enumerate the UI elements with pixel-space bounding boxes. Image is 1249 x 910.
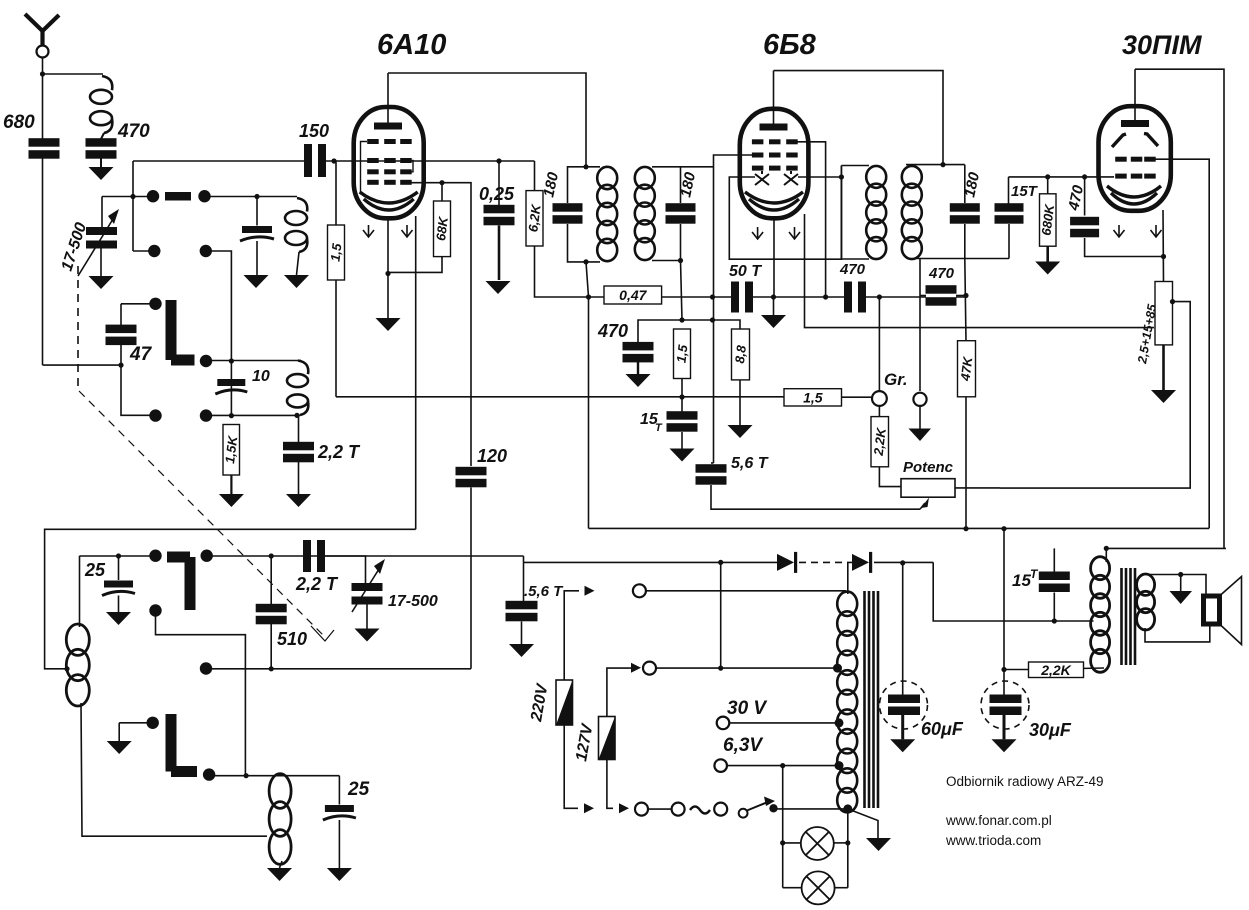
wire 30uF gnd stem	[1003, 715, 1006, 739]
switch contact S1a	[147, 190, 159, 202]
node lamp1 left	[780, 840, 785, 845]
node jack1 bus	[877, 294, 882, 299]
node 510 bottom	[269, 666, 274, 671]
wire pot right	[955, 487, 1000, 489]
svg-text:120: 120	[477, 446, 507, 466]
resistor 6.2K	[525, 191, 543, 246]
svg-text:0,47: 0,47	[619, 287, 647, 303]
grid frame 6A10	[361, 142, 414, 194]
wire det cap stub2	[956, 295, 966, 297]
resistor 47K	[957, 341, 975, 397]
wire 6B8 heater line	[805, 214, 1155, 328]
dashed tuning link diagonal	[79, 391, 325, 637]
wire to 60uF	[902, 563, 904, 695]
wire 6A10 anode up	[387, 73, 389, 123]
node 30P1M cathode	[1161, 254, 1166, 259]
wire OT pri bottom	[1030, 668, 1104, 670]
fuse 127V	[599, 717, 616, 760]
ground 8.8	[728, 425, 753, 438]
ground trimmer 1	[244, 275, 269, 288]
lamp 2	[802, 871, 835, 904]
wire to 1.5M	[335, 161, 337, 225]
capacitor 470 AVC	[623, 342, 654, 363]
ground 6B8 cathode	[761, 315, 786, 328]
arrow var cap 2	[352, 559, 385, 612]
capacitor 470 a	[844, 282, 866, 313]
lamp 1	[801, 827, 834, 860]
trimmer capacitor 25a	[102, 581, 135, 596]
switch contact S2d	[200, 409, 212, 421]
anode 30P1M	[1121, 120, 1149, 127]
resistor 68K	[433, 201, 451, 257]
svg-text:10: 10	[252, 368, 270, 385]
wire 127V down	[607, 760, 613, 809]
wire 220V up	[564, 591, 579, 680]
wire L5 tail	[280, 861, 283, 868]
wire 68K bottom	[388, 257, 442, 273]
node 470 top	[1082, 174, 1087, 179]
wire 680K to ground	[1046, 246, 1049, 261]
wire 1.5K ground	[230, 475, 232, 494]
switch contact S1b	[198, 190, 210, 202]
arrow jack2 chassis	[909, 429, 932, 442]
svg-text:Odbiornik radiowy ARZ-49: Odbiornik radiowy ARZ-49	[946, 774, 1104, 789]
grids 30P1M	[1115, 157, 1156, 179]
wire 6.2K to 0.47	[535, 246, 605, 297]
beam plates 30P1M	[1112, 134, 1158, 148]
svg-text:0,25: 0,25	[479, 184, 515, 204]
tap 6.3V	[835, 761, 844, 770]
wire 6B8 g3/AVC down	[714, 155, 758, 463]
switch contact S3c	[200, 662, 212, 674]
terminal 127V	[643, 662, 656, 675]
svg-text:15: 15	[1012, 571, 1031, 590]
wire bus to 127row	[720, 562, 722, 668]
node 680K top	[1045, 174, 1050, 179]
wire 6A10 cathode down	[387, 218, 389, 318]
wire 470avc ground	[637, 362, 639, 374]
wire L2 to ground	[297, 252, 300, 275]
wire 30P1M g2 down	[1150, 159, 1209, 528]
wire 47K bottom	[965, 397, 967, 529]
arrow speaker chassis	[1170, 591, 1193, 604]
node antenna junction	[40, 71, 45, 76]
node diode out	[839, 174, 844, 179]
wire S1c left	[133, 250, 154, 252]
wire OT sec bottom	[1145, 624, 1210, 642]
wire avc to pot wiper	[711, 485, 920, 509]
node heater tap	[1170, 299, 1175, 304]
wire 5.6T psu gnd	[521, 622, 523, 645]
wire trimmer1 to ground	[256, 241, 258, 275]
oscillator coil L4	[66, 624, 89, 706]
node IFT1 sec bottom	[678, 258, 683, 263]
node IFT1 bottom	[583, 259, 588, 264]
IF transformer 1 primary circuit	[568, 167, 601, 262]
wire osc line left	[45, 529, 416, 669]
wire 6B8 g1 down	[792, 142, 826, 297]
wire to chassis arrow	[1180, 575, 1182, 592]
wire 2.2T ground	[298, 462, 300, 495]
wire 1.5M down	[335, 280, 337, 397]
node 510 top	[269, 553, 274, 558]
wire S3e down	[156, 611, 246, 776]
variable capacitor 17-500 #2	[352, 583, 383, 605]
oscillator coil L5	[269, 774, 291, 865]
terminal 6.3V	[714, 759, 727, 772]
node IFT2 pri top	[940, 162, 945, 167]
wire 2.2K to pot	[879, 467, 901, 487]
capacitor 150	[304, 144, 326, 177]
diodes inside 6B8	[755, 171, 798, 185]
node mains bus tap	[718, 560, 723, 565]
wire 510 top stem	[270, 556, 272, 605]
capacitor 180 IFT2	[950, 203, 980, 224]
input coil L1	[90, 76, 112, 133]
wire 30V tap	[730, 722, 840, 724]
wire 15T to IFT2 rail	[1008, 224, 1010, 259]
jack Gr 1	[872, 391, 887, 406]
switch contact S3a	[149, 550, 161, 562]
node L3 bottom	[294, 413, 299, 418]
node 25a tap	[116, 553, 121, 558]
wire to 470 cath cap	[1084, 177, 1086, 216]
svg-text:6A10: 6A10	[377, 29, 446, 61]
wire to var cap 1	[101, 197, 103, 228]
svg-text:30ПIM: 30ПIM	[1122, 30, 1202, 60]
link end mark	[311, 626, 334, 641]
wire 25b ground	[338, 820, 340, 868]
wire coil to cap	[101, 133, 104, 139]
ground bias chain	[1151, 390, 1176, 403]
wire 1.5 bottom	[681, 379, 683, 412]
tap 30V	[835, 718, 844, 727]
wire 0.47 to bus	[662, 296, 713, 298]
svg-text:Potenc: Potenc	[903, 459, 954, 476]
wire row to psu	[366, 555, 524, 557]
wire var1 to ground	[100, 249, 102, 277]
wire 60uF gnd stem	[901, 715, 904, 739]
ground 30uF	[992, 739, 1017, 752]
svg-text:2,2 T: 2,2 T	[295, 574, 339, 594]
dashed tuning link vertical	[77, 266, 79, 390]
svg-text:68K: 68K	[433, 214, 451, 241]
wire IFT2 to 47K	[965, 259, 966, 342]
switch contact S1d	[200, 245, 212, 257]
node rail to 2.2K	[1001, 526, 1006, 531]
wire grid line left	[133, 160, 304, 162]
node avc line	[679, 394, 684, 399]
wire lamps left rail	[782, 766, 784, 888]
node IFT1 top	[583, 164, 588, 169]
wire lamp1 left stub	[783, 842, 801, 844]
wire row3 left	[80, 555, 154, 557]
svg-text:470: 470	[597, 321, 628, 341]
switch bar S3	[167, 557, 190, 610]
svg-text:47: 47	[129, 344, 153, 365]
wire down to band switch	[132, 161, 134, 251]
heater pin 30P1M left	[1114, 225, 1125, 237]
svg-text:60μF: 60μF	[921, 719, 964, 739]
wire 25a ground	[118, 596, 120, 613]
output transformer primary	[1091, 557, 1110, 673]
power transformer core	[865, 591, 879, 808]
oscillator coil L3	[287, 361, 308, 416]
IFT1 primary coil	[597, 167, 617, 261]
wire L4 to L5	[81, 703, 267, 836]
wire 510 bottom	[270, 624, 272, 669]
output transformer core	[1122, 568, 1136, 665]
potentiometer Potenc	[901, 479, 955, 498]
wire 15T out bottom	[1053, 593, 1055, 622]
output transformer secondary	[1137, 574, 1155, 630]
wire osc mid row	[206, 668, 471, 670]
resistor 1.5M	[327, 225, 344, 280]
wire 127V to transformer	[656, 667, 838, 669]
node lamps to 6.3V	[780, 763, 785, 768]
ground transformer	[866, 838, 891, 851]
capacitor 47	[106, 325, 137, 346]
wire S4a ground stem	[118, 723, 120, 741]
wire 470 to ground	[100, 158, 102, 167]
wire S2b right	[206, 360, 301, 362]
heater pin 6B8 left	[752, 227, 763, 239]
switch contact S1c	[148, 245, 160, 257]
node avc 1.5 top	[679, 317, 684, 322]
wire antenna down	[42, 58, 44, 140]
svg-text:www.trioda.com: www.trioda.com	[945, 833, 1041, 848]
wire 6B8 anode to IFT2	[774, 71, 944, 165]
capacitor 60uF	[880, 681, 928, 729]
svg-text:6Б8: 6Б8	[763, 29, 817, 61]
diode D2	[852, 552, 872, 573]
wire lamp1 right stub	[834, 842, 848, 844]
svg-text:15T: 15T	[1011, 183, 1039, 200]
node g3 bus	[710, 294, 715, 299]
wire 30P1M cathode down	[1162, 210, 1165, 282]
svg-text:6,3V: 6,3V	[723, 735, 763, 756]
wire L4 top	[79, 556, 81, 627]
node avc cross	[710, 317, 715, 322]
switch bar S2 L	[171, 300, 195, 360]
IFT2 primary coil	[902, 166, 922, 259]
jack Gr 2	[913, 393, 926, 406]
node 15T/B+	[1052, 618, 1057, 623]
wire 6B8 anode up	[773, 71, 775, 124]
terminal mains 3	[714, 803, 727, 816]
arrow plug 220	[585, 586, 595, 596]
capacitor 470 detector	[926, 285, 957, 306]
wire to var2	[325, 556, 366, 583]
wire 6A10 osc anode down	[415, 216, 417, 529]
diode D1	[777, 552, 797, 573]
node 0.25 tap	[496, 158, 501, 163]
wire lamp2 left stub	[783, 887, 801, 889]
capacitor 0.25	[484, 205, 515, 226]
svg-text:.5,6 T: .5,6 T	[524, 583, 564, 600]
wire avc top line	[638, 320, 713, 343]
wire 5.6T stub	[711, 462, 714, 464]
AC symbol	[690, 807, 710, 814]
svg-text:510: 510	[277, 629, 307, 649]
wire 127V up	[607, 668, 631, 716]
switch bar S1	[165, 192, 191, 201]
wire to 0.25	[498, 161, 500, 205]
node row4 cross	[244, 773, 249, 778]
variable capacitor 17-500 #1	[86, 227, 117, 249]
wire 220V down	[564, 725, 578, 808]
wire mains 1-2	[648, 808, 672, 810]
wire 2.2K left	[1004, 669, 1029, 671]
node cathode/68K	[385, 271, 390, 276]
cathode 6B8	[745, 192, 803, 210]
wire 30P1M anode up	[1134, 69, 1136, 120]
wire 0.25 to ground	[498, 226, 501, 281]
node trimmer tap	[254, 194, 259, 199]
capacitor 5.6T psu	[506, 601, 538, 622]
dashed diode link	[799, 561, 854, 563]
ground 25a	[106, 612, 131, 625]
terminal mains 1	[635, 803, 648, 816]
wire to 5.6T psu	[523, 562, 525, 601]
power transformer winding	[837, 592, 857, 813]
wire 30P1M anode right down	[1135, 69, 1224, 548]
capacitor 470 cathode	[1070, 217, 1099, 238]
ground 15T AVC	[670, 449, 695, 462]
ground S4a	[107, 741, 132, 754]
capacitor 15T coupling	[995, 203, 1024, 224]
node speaker gnd	[1178, 572, 1183, 577]
capacitor 180 IFT1 pri	[553, 203, 583, 224]
wire 15T avc ground	[681, 432, 683, 449]
ground 0.25	[486, 281, 511, 294]
svg-text:8,8: 8,8	[732, 344, 749, 365]
svg-text:www.fonar.com.pl: www.fonar.com.pl	[945, 813, 1052, 828]
wire IFT1 sec to AVC	[681, 261, 683, 321]
ground 60uF	[890, 739, 915, 752]
tube 6B8	[740, 109, 809, 219]
ground 6A10 cathode	[376, 318, 401, 331]
capacitor 2.2T pad	[303, 540, 325, 572]
switch contact S3b	[201, 550, 213, 562]
svg-text:2,2 T: 2,2 T	[317, 442, 361, 462]
heater pin 6A10 right	[402, 225, 413, 237]
svg-text:1,5: 1,5	[327, 242, 344, 263]
wire mains bus	[524, 561, 779, 563]
ground L2	[284, 275, 309, 288]
node osc cross1	[229, 358, 234, 363]
resistor 1.5 avc	[673, 329, 690, 379]
wire row3 right	[207, 555, 366, 557]
node 1.5K top	[229, 413, 234, 418]
tube 30P1M	[1099, 106, 1171, 211]
svg-text:30 V: 30 V	[727, 698, 767, 719]
wire 47 to S2c	[121, 344, 154, 415]
capacitor 680 antenna	[29, 138, 60, 159]
wire 30P1M grid line	[1009, 176, 1115, 178]
wire diode to IFT2sec	[840, 166, 842, 260]
tap 127V	[833, 664, 842, 673]
wire S2d right	[206, 414, 300, 416]
svg-text:470: 470	[928, 265, 955, 282]
grids 6A10	[367, 139, 412, 185]
wire to input coil	[43, 73, 104, 75]
svg-text:2,2K: 2,2K	[1040, 662, 1071, 678]
node sw1 junction	[130, 194, 135, 199]
resistor 1.5K	[222, 425, 240, 476]
wire to 25b	[338, 776, 340, 805]
wire to 8.8	[713, 320, 741, 329]
wire psu corner	[523, 556, 525, 562]
anode 6B8	[760, 124, 788, 131]
speaker	[1204, 577, 1242, 645]
node cathode bus	[771, 294, 776, 299]
ground 1.5K	[219, 494, 244, 507]
heater pin 6A10 left	[363, 225, 374, 237]
fuse 220V	[556, 680, 573, 725]
wire 470 to cathode	[1085, 238, 1164, 257]
arrow mains b	[619, 803, 629, 813]
trimmer capacitor 10	[215, 379, 247, 394]
wire anode link	[1106, 547, 1226, 549]
wire to 25a	[118, 556, 120, 580]
IFT1 secondary coil	[635, 167, 655, 260]
wire rectifier out	[874, 561, 933, 563]
resistor 1.5 gr	[784, 389, 842, 406]
wire 6.3V tap	[727, 765, 839, 767]
tube 6A10	[354, 107, 424, 218]
node g1 bus	[823, 294, 828, 299]
wire osc bus vert	[206, 251, 232, 416]
wire chain to ground	[1162, 345, 1165, 390]
wire switch to transformer	[778, 808, 848, 810]
mains switch	[739, 797, 778, 818]
wire 6A10 osc grid	[406, 183, 471, 466]
node 2.2K out	[1001, 667, 1006, 672]
wire IFT1 B+ down	[588, 297, 590, 528]
capacitor 50T	[731, 282, 753, 313]
ground var cap 1	[89, 276, 114, 289]
wire sw1 right to coil	[205, 196, 298, 198]
anode 6A10	[374, 123, 402, 130]
transformer bottom chassis	[848, 809, 878, 838]
wire down to 2.2K out	[1003, 529, 1005, 695]
svg-text:150: 150	[299, 121, 329, 141]
wire 680 down	[42, 158, 44, 365]
capacitor 510	[256, 604, 287, 625]
terminal 30V	[717, 717, 730, 730]
wire 8.8 to ground	[739, 380, 741, 425]
node OT primary top	[1104, 546, 1109, 551]
svg-text:50 T: 50 T	[729, 263, 762, 280]
wire to 47	[120, 304, 122, 326]
heater pin 6B8 right	[789, 227, 800, 239]
ground var cap 2	[355, 629, 380, 642]
node 47/680line	[118, 363, 123, 368]
ground 470 AVC	[626, 374, 651, 387]
node 47K rail	[963, 526, 968, 531]
antenna	[25, 14, 59, 45]
switch contact S2a	[149, 298, 161, 310]
resistor 8.8	[732, 329, 750, 380]
wire jack2 down	[919, 406, 921, 429]
svg-text:470: 470	[117, 121, 150, 142]
arrow mains a	[584, 803, 594, 813]
wire to 2.2T	[298, 415, 300, 443]
wire rectifier to OT	[933, 562, 1093, 621]
ground 5.6T psu	[509, 644, 534, 657]
trimmer capacitor T1	[240, 226, 274, 241]
